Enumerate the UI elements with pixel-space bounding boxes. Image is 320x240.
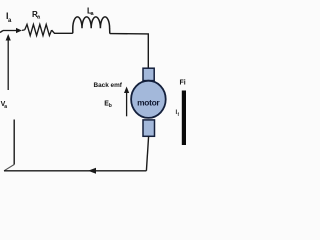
svg-text:Fi: Fi (180, 80, 186, 87)
motor terminal top (143, 68, 154, 80)
svg-text:b: b (109, 103, 112, 109)
wire motor bottom to bus (146, 136, 148, 171)
wire resistor to inductor (52, 30, 73, 33)
node label Ia (6, 11, 12, 24)
label Eb (104, 100, 111, 109)
motor terminal bottom (143, 120, 155, 136)
back emf arrow (124, 87, 129, 117)
svg-text:motor: motor (137, 98, 160, 108)
resistor Ra (25, 24, 52, 35)
wire Va arrow upper segment (6, 34, 11, 90)
label Ra (32, 10, 41, 21)
wire Va lower segment (13, 120, 15, 165)
svg-text:Back emf: Back emf (94, 82, 123, 89)
label Va (1, 101, 8, 110)
motor body circle (131, 81, 166, 118)
field winding bar (cropped) (182, 91, 187, 146)
label La (87, 7, 95, 18)
wire corner bottom-left (4, 165, 14, 171)
svg-text:a: a (4, 104, 7, 110)
wire inductor to motor corner (110, 34, 149, 69)
inductor La (73, 17, 110, 34)
wire top-left corner stub (0, 31, 3, 33)
wire bottom bus with current arrow (4, 168, 146, 174)
wire arrow to resistor (22, 29, 25, 32)
wire Ia current arrow (3, 28, 22, 33)
label If (176, 110, 180, 117)
